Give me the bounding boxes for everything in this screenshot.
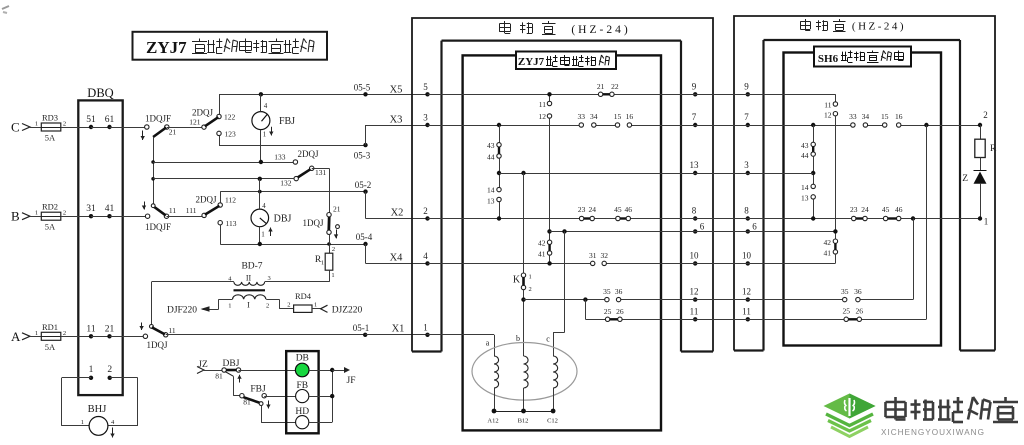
- node 133 line tee: [151, 160, 155, 164]
- wire terminal 2 to BHJ: [110, 377, 138, 379]
- svg-text:16: 16: [895, 112, 903, 121]
- svg-text:46: 46: [625, 205, 633, 214]
- label cable box HZ-24 left: [499, 23, 510, 25]
- node cable terminal 3 left strip: [425, 123, 429, 127]
- svg-text:24: 24: [861, 205, 869, 214]
- relay FBJ coil: [252, 112, 270, 130]
- svg-text:42: 42: [824, 238, 832, 247]
- svg-text:41: 41: [824, 249, 832, 258]
- right box left terminal strip: [734, 40, 764, 351]
- node 31: [89, 214, 93, 218]
- svg-text:XICHENGYOUXIWANG: XICHENGYOUXIWANG: [881, 428, 985, 437]
- motor bottom bus: [494, 411, 553, 413]
- svg-text:5: 5: [423, 82, 428, 92]
- svg-text:RD4: RD4: [295, 291, 312, 301]
- wire DBQ 21 to contact 1DQJ row A: [110, 336, 146, 338]
- node chain bottom on X2: [497, 216, 501, 220]
- svg-text:X3: X3: [390, 115, 403, 126]
- svg-text:BD-7: BD-7: [241, 262, 262, 272]
- svg-text:a: a: [486, 339, 490, 348]
- svg-text:43: 43: [801, 141, 809, 150]
- svg-text:ZYJ7: ZYJ7: [518, 56, 545, 68]
- wire X5 into cable box terminal 5: [428, 94, 550, 96]
- svg-text:1DQJF: 1DQJF: [145, 114, 171, 124]
- svg-text:7: 7: [744, 112, 749, 122]
- svg-text:05-3: 05-3: [354, 151, 371, 161]
- svg-text:5A: 5A: [45, 133, 56, 143]
- wire 11 line corner up to 2 line: [926, 125, 928, 319]
- svg-text:DJZ220: DJZ220: [332, 306, 363, 316]
- wire 113 DBJ 05-4 line: [220, 244, 365, 246]
- wire FBJ top lead: [260, 94, 262, 111]
- lamp unit box: [286, 351, 318, 433]
- wire K vertical: [523, 173, 525, 273]
- node 3 line tee SH6: [811, 171, 815, 175]
- wire DBJ top lead: [259, 179, 261, 209]
- wire FBJ to FB lamp: [264, 396, 296, 398]
- svg-text:3: 3: [268, 275, 271, 282]
- node right box terminal 11: [746, 317, 750, 321]
- wire X5 line inside machine: [428, 94, 696, 96]
- wire terminal 11 to 21: [91, 336, 110, 338]
- svg-text:26: 26: [616, 307, 624, 316]
- wire R1 bottom to BD-7 line: [329, 270, 331, 282]
- motor coil a: [494, 356, 499, 388]
- node right box terminal 8: [746, 216, 750, 220]
- node A12: [492, 409, 497, 414]
- svg-text:3: 3: [744, 160, 749, 170]
- right box middle top edge: [764, 39, 961, 41]
- svg-text:2: 2: [332, 246, 335, 253]
- wire 112 up to 05-2 line: [220, 192, 222, 203]
- node cable terminal 8 right strip: [693, 216, 697, 220]
- wire 12 line: [524, 299, 605, 301]
- wire 05-2 line: [220, 191, 365, 193]
- wire 05-3 up to X3: [365, 125, 367, 145]
- wire 13 line to terminal: [499, 173, 695, 175]
- wire 1DQJF row C to 2DQJ 121: [167, 127, 202, 129]
- wire 41 down corner to 10 line: [835, 254, 837, 263]
- svg-text:X4: X4: [390, 253, 404, 264]
- node DBJ top junction on 132 line: [258, 177, 262, 181]
- node 61: [107, 125, 111, 129]
- node 132 line tee: [151, 177, 155, 181]
- svg-text:13: 13: [487, 197, 495, 206]
- svg-text:DJF220: DJF220: [167, 306, 197, 316]
- svg-text:25: 25: [604, 307, 612, 316]
- svg-text:2: 2: [287, 302, 290, 309]
- node DBQ terminal 1: [89, 376, 93, 380]
- wire branch down to 11 line: [585, 300, 587, 320]
- wire 9 line across to SH6: [695, 94, 835, 96]
- wire DBJ bottom lead: [259, 227, 261, 244]
- svg-text:ZYJ7: ZYJ7: [146, 38, 187, 57]
- node 43-44 tap SH6: [811, 123, 815, 127]
- svg-text:RD3: RD3: [42, 113, 58, 123]
- svg-text:16: 16: [626, 112, 634, 121]
- svg-text:SH6: SH6: [818, 53, 839, 65]
- svg-text:122: 122: [224, 113, 236, 122]
- machine label box: [516, 52, 616, 70]
- svg-text:9: 9: [744, 81, 749, 91]
- node right box terminal 10: [746, 261, 750, 265]
- watermark logo wheat: [848, 398, 850, 416]
- wire 1DQJF row B to 2DQJ 111: [167, 216, 203, 218]
- node DB out: [330, 368, 334, 372]
- contact 1DQJ row A (transfer): [143, 334, 147, 338]
- node DBQ terminal 2: [108, 376, 112, 380]
- watermark text xicheng youxi wang CJK: [886, 401, 906, 404]
- svg-text:10: 10: [742, 250, 752, 260]
- node 05-3: [363, 143, 367, 147]
- svg-text:(HZ-24): (HZ-24): [571, 24, 630, 36]
- node chain bottom SH6: [811, 216, 815, 220]
- wire 41 to X4 line: [549, 255, 551, 263]
- resistor R1: [325, 253, 333, 270]
- svg-text:1: 1: [423, 322, 428, 332]
- svg-text:44: 44: [487, 153, 495, 162]
- wire fuse to DBQ terminal 31: [61, 216, 91, 218]
- wire 43-44 14-13 chain: [499, 125, 501, 143]
- node 05-4: [363, 242, 367, 246]
- svg-text:A12: A12: [487, 418, 498, 425]
- svg-text:34: 34: [590, 112, 598, 121]
- wire 05-2 down to X2: [365, 192, 367, 219]
- svg-text:11: 11: [168, 326, 175, 335]
- svg-text:43: 43: [487, 141, 495, 150]
- node C12: [551, 409, 556, 414]
- svg-text:11: 11: [742, 306, 751, 316]
- node cable terminal 12 right strip: [693, 297, 697, 301]
- svg-text:33: 33: [849, 112, 857, 121]
- svg-text:10: 10: [690, 250, 700, 260]
- wire to JF: [332, 370, 344, 372]
- svg-text:36: 36: [615, 287, 623, 296]
- svg-text:12: 12: [742, 287, 751, 297]
- svg-text:1: 1: [35, 210, 38, 217]
- wire 6 line across: [695, 231, 835, 233]
- svg-text:21: 21: [597, 82, 605, 91]
- node right box terminal 7: [746, 123, 750, 127]
- svg-text:6: 6: [700, 222, 705, 232]
- svg-text:111: 111: [186, 206, 197, 215]
- node 05-5: [363, 92, 367, 96]
- node right box terminal 9: [746, 92, 750, 96]
- svg-text:41: 41: [105, 204, 115, 214]
- svg-text:1: 1: [261, 231, 265, 239]
- node right box terminal 12: [746, 297, 750, 301]
- wire 10 line across: [695, 263, 835, 265]
- svg-text:1: 1: [35, 121, 38, 128]
- svg-text:22: 22: [611, 82, 619, 91]
- label cable box HZ-24 right: [800, 21, 810, 23]
- svg-text:36: 36: [854, 287, 862, 296]
- wire K to motor b: [523, 290, 525, 356]
- right box right terminal strip: [960, 40, 995, 351]
- wire X3 7 line inside machine: [428, 125, 580, 127]
- svg-text:1: 1: [89, 365, 94, 375]
- node 51: [89, 125, 93, 129]
- wire 122 up to X5 line: [219, 94, 221, 114]
- node R1 chain junction: [327, 242, 331, 246]
- node cable terminal 10 right strip: [693, 261, 697, 265]
- svg-text:C12: C12: [547, 418, 558, 425]
- svg-text:Z: Z: [962, 174, 968, 184]
- fuse RD3 5A: [41, 123, 61, 131]
- svg-text:131: 131: [315, 168, 327, 177]
- arrow to DJF220: [201, 306, 210, 312]
- wire 7 line across to terminal 2: [695, 125, 851, 127]
- svg-text:X2: X2: [391, 208, 404, 219]
- wire X1 to terminal 1: [365, 334, 426, 336]
- svg-text:1: 1: [984, 217, 989, 227]
- node cable terminal 5 left strip: [425, 92, 429, 96]
- wire c phase from 6 line: [564, 231, 566, 332]
- svg-text:81: 81: [243, 398, 251, 407]
- wire FBJ bottom lead to 133 line: [260, 130, 262, 162]
- svg-text:2DQJ: 2DQJ: [195, 195, 216, 205]
- svg-text:B12: B12: [518, 418, 529, 425]
- wire 113 down to DBJ line: [220, 225, 222, 244]
- svg-text:11: 11: [169, 206, 176, 215]
- svg-text:123: 123: [225, 130, 237, 139]
- fuse RD1 5A: [41, 332, 61, 340]
- node 12 line tap at K wire: [521, 297, 525, 301]
- wire DBJ to DB lamp: [239, 370, 296, 372]
- machine box ZYJ7 inner: [463, 55, 661, 430]
- wire terminal 51 to 61: [91, 127, 110, 129]
- wire 05-4 down to X4: [365, 244, 367, 263]
- node 25-26 branch: [583, 297, 587, 301]
- svg-text:B: B: [11, 209, 20, 224]
- motor ellipse: [472, 343, 577, 401]
- svg-text:2: 2: [529, 286, 532, 293]
- svg-text:DBQ: DBQ: [87, 86, 113, 100]
- wire DBQ 41 to contact 1DQJF row B: [110, 216, 148, 218]
- svg-text:JZ: JZ: [198, 360, 208, 370]
- svg-text:13: 13: [690, 160, 700, 170]
- wire JZ to DBJ contact: [204, 370, 222, 372]
- wire FBJ back contact to HD lamp: [261, 406, 263, 423]
- watermark logo chevrons: [826, 414, 873, 426]
- svg-text:DBJ: DBJ: [274, 214, 292, 225]
- motor coil b: [524, 356, 529, 388]
- wire 11 line: [585, 319, 695, 321]
- title box ZYJ7 switch circuit outdoor part: [133, 32, 328, 60]
- arrow from DJZ220: [321, 305, 328, 312]
- wire 132 line: [153, 178, 294, 180]
- svg-text:1: 1: [228, 303, 231, 310]
- wire DBQ 61 to contact 1DQJF row C: [110, 127, 147, 129]
- wire vertical link 1DQJF blades: [153, 137, 155, 206]
- svg-text:31: 31: [86, 204, 96, 214]
- relay DBJ coil: [251, 209, 269, 227]
- node right box terminal 6: [746, 229, 750, 233]
- wire X4 10 line inside machine: [428, 263, 591, 265]
- svg-text:8: 8: [744, 206, 749, 216]
- svg-text:11: 11: [690, 306, 699, 316]
- node 05-2: [363, 189, 367, 193]
- svg-text:1: 1: [529, 274, 532, 281]
- wire fuse to DBQ terminal 51: [61, 127, 91, 129]
- svg-text:R: R: [990, 144, 997, 154]
- node cable terminal 11 right strip: [693, 317, 697, 321]
- svg-text:11: 11: [86, 324, 95, 334]
- svg-text:2: 2: [63, 330, 66, 337]
- node vertical tap at 926: [924, 123, 928, 127]
- wire terminal 31 to 41: [91, 216, 110, 218]
- resistor R: [975, 139, 985, 157]
- wire 12 line corner up to 1 line: [913, 219, 915, 300]
- node right box terminal 3: [746, 171, 750, 175]
- svg-text:FBJ: FBJ: [250, 385, 266, 395]
- node 05-1: [363, 333, 367, 337]
- svg-text:2: 2: [983, 110, 988, 120]
- svg-text:1: 1: [81, 419, 84, 426]
- wire Z to terminal 1: [980, 184, 982, 219]
- corner artifact marks top-left: [2, 6, 9, 9]
- node FBJ top junction: [259, 92, 263, 96]
- wire 6 line: [550, 231, 696, 233]
- wire terminal 1 to BHJ: [62, 377, 91, 379]
- svg-text:X5: X5: [390, 85, 403, 96]
- node 11 12 tap: [547, 92, 551, 96]
- node 41 bottom on X4: [547, 261, 551, 265]
- fuse RD4: [294, 305, 312, 312]
- svg-text:DB: DB: [296, 354, 309, 364]
- title CJK text dao-cha-dian-lu-shi-wai-bu-fen: [192, 41, 207, 43]
- wire 8 line across to terminal 1: [695, 218, 851, 220]
- svg-text:2: 2: [63, 210, 66, 217]
- arrow BHJ polarity: [112, 428, 114, 438]
- wire RD4 to DJZ220: [312, 308, 321, 310]
- node terminal 2 right: [978, 123, 982, 127]
- wire BD-7 secondary line: [152, 281, 234, 283]
- svg-text:b: b: [516, 334, 520, 343]
- wire DBJ back to FBJ contact: [233, 376, 235, 396]
- node terminal 1 right: [978, 216, 982, 220]
- node FBJ bottom junction: [259, 160, 263, 164]
- cable box left terminal strip: [412, 41, 442, 352]
- svg-text:132: 132: [280, 179, 292, 188]
- node DBJ bottom junction: [258, 242, 262, 246]
- wire X1 line 05-1: [166, 334, 366, 336]
- svg-text:51: 51: [86, 115, 96, 125]
- svg-text:11: 11: [539, 100, 546, 109]
- svg-text:JF: JF: [347, 376, 356, 386]
- transformer core bar: [234, 289, 266, 291]
- wire fuse to DBQ terminal 11: [61, 336, 91, 338]
- svg-text:14: 14: [487, 186, 495, 195]
- svg-text:1DQJ: 1DQJ: [146, 340, 167, 350]
- node 43-44 tap: [497, 123, 501, 127]
- svg-text:81: 81: [215, 372, 223, 381]
- watermark logo diamond: [824, 394, 876, 419]
- svg-text:1DQJ: 1DQJ: [302, 218, 323, 228]
- wire primary 1 to DJF220: [219, 299, 233, 301]
- svg-text:15: 15: [881, 112, 889, 121]
- wire 12 line across: [695, 299, 842, 301]
- svg-text:41: 41: [538, 250, 546, 259]
- svg-text:25: 25: [842, 307, 850, 316]
- SH6 box inner: [784, 53, 942, 346]
- svg-text:c: c: [546, 335, 550, 344]
- wire R to Z: [980, 158, 982, 171]
- wire X5 line 05-5: [219, 94, 428, 96]
- node B12: [521, 409, 526, 414]
- wire X4 line to terminal 4: [366, 263, 428, 265]
- wire C to fuse: [30, 127, 41, 129]
- svg-text:24: 24: [588, 205, 596, 214]
- svg-text:1: 1: [331, 272, 334, 279]
- node cable terminal 13 right strip: [693, 171, 697, 175]
- wire 2 down to R: [980, 125, 982, 139]
- svg-text:1: 1: [314, 302, 317, 309]
- node 6 line SH6 junction: [833, 229, 837, 233]
- svg-text:05-1: 05-1: [353, 323, 370, 333]
- svg-text:23: 23: [850, 205, 858, 214]
- wire X2 8 line inside machine: [428, 218, 696, 220]
- svg-text:112: 112: [225, 196, 236, 205]
- node cable terminal 7 right strip: [693, 123, 697, 127]
- wire 05-3 line from 123: [219, 145, 366, 147]
- cable box right terminal strip: [681, 41, 713, 352]
- svg-text:4: 4: [264, 102, 268, 110]
- wire 9 line corner down contact 11-12 SH6 (open): [835, 94, 837, 102]
- svg-text:BHJ: BHJ: [88, 404, 107, 415]
- svg-text:13: 13: [801, 194, 809, 203]
- cable box HZ-24 left outer: [412, 18, 713, 352]
- svg-text:42: 42: [538, 239, 546, 248]
- wire X1 to motor a: [427, 334, 495, 336]
- node K wire tap: [521, 171, 525, 175]
- svg-text:K: K: [513, 275, 521, 286]
- wire lamps right bus: [309, 370, 332, 372]
- svg-text:23: 23: [578, 205, 586, 214]
- svg-text:113: 113: [226, 219, 237, 228]
- svg-text:FBJ: FBJ: [279, 116, 295, 127]
- wire X3 line to terminal 3: [366, 125, 428, 127]
- svg-text:05-4: 05-4: [356, 232, 373, 242]
- svg-text:1: 1: [263, 131, 267, 139]
- wire A to fuse: [30, 336, 41, 338]
- svg-text:5A: 5A: [45, 342, 56, 352]
- fuse RD2 5A: [41, 212, 61, 220]
- svg-text:21: 21: [105, 324, 115, 334]
- cable box middle top edge: [442, 39, 682, 41]
- svg-text:5A: 5A: [45, 222, 56, 232]
- wire 123 down to 05-3 line: [219, 136, 221, 146]
- svg-text:12: 12: [539, 112, 547, 121]
- wire 43-44 14-13 chain SH6: [813, 125, 815, 142]
- node c-phase tap: [562, 229, 566, 233]
- svg-text:3: 3: [423, 113, 428, 123]
- svg-text:26: 26: [856, 307, 864, 316]
- svg-text:RD2: RD2: [42, 202, 58, 212]
- svg-text:14: 14: [801, 183, 809, 192]
- svg-text:31: 31: [589, 251, 597, 260]
- wire BD-7 line down to 1DQJ row A: [151, 282, 153, 327]
- cable box HZ-24 right outer: [734, 16, 995, 351]
- wire primary 2 to RD4: [266, 299, 279, 301]
- node 11: [89, 334, 93, 338]
- svg-text:7: 7: [692, 112, 697, 122]
- node cable terminal 6 right strip: [693, 229, 697, 233]
- svg-text:15: 15: [614, 112, 622, 121]
- svg-text:1: 1: [35, 330, 38, 337]
- svg-text:A: A: [11, 329, 21, 344]
- svg-text:2: 2: [107, 365, 112, 375]
